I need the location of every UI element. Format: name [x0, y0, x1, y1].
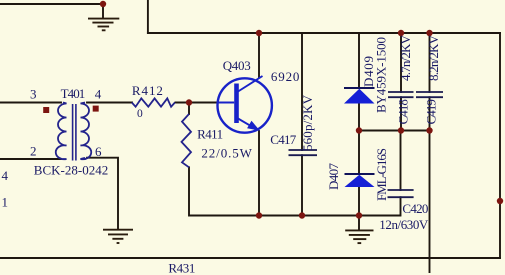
wire R412 to base	[176, 102, 219, 104]
svg-text:R411: R411	[197, 127, 223, 142]
junction dot top-left	[100, 1, 106, 7]
svg-text:3: 3	[30, 87, 37, 102]
wire D409 bottom	[358, 104, 360, 131]
wire ground stem top-left	[102, 4, 104, 19]
svg-text:Q403: Q403	[223, 58, 251, 73]
wire right border	[499, 33, 501, 258]
svg-text:0: 0	[137, 108, 143, 120]
capacitor C420 plates	[388, 190, 414, 197]
svg-text:2: 2	[30, 143, 37, 158]
transformer T401 left winding	[56, 103, 67, 160]
svg-text:4: 4	[2, 168, 9, 183]
wire R411 top	[188, 103, 190, 115]
svg-text:R412: R412	[132, 83, 163, 98]
transistor Q403 base bar	[234, 84, 239, 124]
wire collector up	[258, 33, 260, 78]
junction dot node130 C418	[398, 127, 404, 133]
ground (top-left)	[88, 19, 119, 31]
junction dot node215 D407	[356, 212, 362, 218]
transistor Q403 base lead	[218, 102, 234, 104]
diode D409 triangle	[344, 89, 375, 104]
ground (below T401 pin6)	[103, 230, 133, 243]
svg-text:C418: C418	[396, 99, 411, 124]
resistor R411 zigzag	[182, 114, 192, 167]
wire C420 bottom	[400, 197, 402, 215]
svg-text:22/0.5W: 22/0.5W	[201, 145, 252, 160]
svg-text:D407: D407	[326, 163, 341, 191]
diode D407 cathode bar	[345, 173, 375, 175]
junction dot node215 C417	[299, 212, 305, 218]
svg-text:FML-G16S: FML-G16S	[374, 148, 389, 201]
wire C419 top	[429, 33, 431, 92]
wire C419 down long	[429, 97, 431, 272]
svg-text:12n/630V: 12n/630V	[379, 217, 429, 232]
svg-text:C420: C420	[402, 201, 428, 216]
svg-text:1: 1	[2, 195, 9, 210]
svg-text:T401: T401	[61, 86, 86, 101]
capacitor C419 plates	[416, 92, 443, 97]
svg-text:6: 6	[95, 144, 102, 159]
wire pin3	[0, 102, 61, 104]
wire bottom R431 line	[0, 257, 500, 259]
resistor R412 zigzag	[132, 98, 175, 106]
wire C420 top	[400, 131, 402, 191]
wire emitter down	[258, 131, 260, 216]
wire C418 top	[400, 33, 402, 92]
transformer T401 right winding	[81, 103, 92, 160]
wire pin2	[0, 158, 61, 160]
junction dot rail C418	[398, 30, 404, 36]
pin pad square left	[43, 107, 49, 113]
wire C417 top	[301, 33, 303, 150]
transistor Q403 collector lead	[238, 76, 263, 92]
wire pin4 to R412	[87, 102, 132, 104]
svg-text:BY459X-1500: BY459X-1500	[374, 37, 389, 113]
wire top-left horizontal	[0, 3, 103, 5]
junction dot right border	[497, 198, 503, 204]
wire C417 bottom	[301, 155, 303, 215]
wire D407 bottom	[358, 187, 360, 216]
diode D409 cathode bar	[344, 87, 375, 89]
transistor Q403 emitter lead with arrow	[238, 119, 256, 130]
wire top rail	[148, 32, 500, 34]
capacitor C417 plates	[289, 150, 318, 155]
wire C418 bottom	[400, 97, 402, 130]
svg-text:C417: C417	[270, 132, 297, 147]
wire D409 top	[358, 33, 360, 88]
svg-text:R431: R431	[168, 261, 195, 275]
junction dot node130 D409	[356, 127, 362, 133]
wire vertical entering top	[147, 0, 149, 33]
svg-text:560p/2KV: 560p/2KV	[300, 94, 315, 151]
junction dot node130 C419	[426, 127, 432, 133]
wire node line y130	[359, 130, 430, 132]
junction dot node215 emitter	[256, 212, 262, 218]
capacitor C418 plates	[388, 92, 414, 97]
junction dot rail C419	[426, 30, 432, 36]
junction dot base node	[186, 99, 192, 105]
svg-text:BCK-28-0242: BCK-28-0242	[34, 163, 108, 178]
wire pin6 elbow	[87, 158, 118, 230]
wire R411 bottom and lower node line	[189, 167, 400, 215]
svg-text:8.2n/2KV: 8.2n/2KV	[426, 34, 441, 81]
transistor Q403 circle	[218, 78, 272, 132]
diode D407 triangle	[345, 175, 375, 187]
wire D407 top	[358, 131, 360, 175]
svg-text:C419: C419	[424, 99, 439, 124]
svg-text:6920: 6920	[271, 69, 300, 84]
wire ground stem D407	[358, 216, 360, 231]
svg-text:4: 4	[95, 87, 102, 102]
ground (below D407)	[345, 230, 373, 243]
svg-text:4.7n/2KV: 4.7n/2KV	[398, 34, 413, 81]
pin pad square right	[93, 106, 99, 112]
transformer T401 core	[73, 104, 76, 161]
junction dot rail collector	[256, 30, 262, 36]
